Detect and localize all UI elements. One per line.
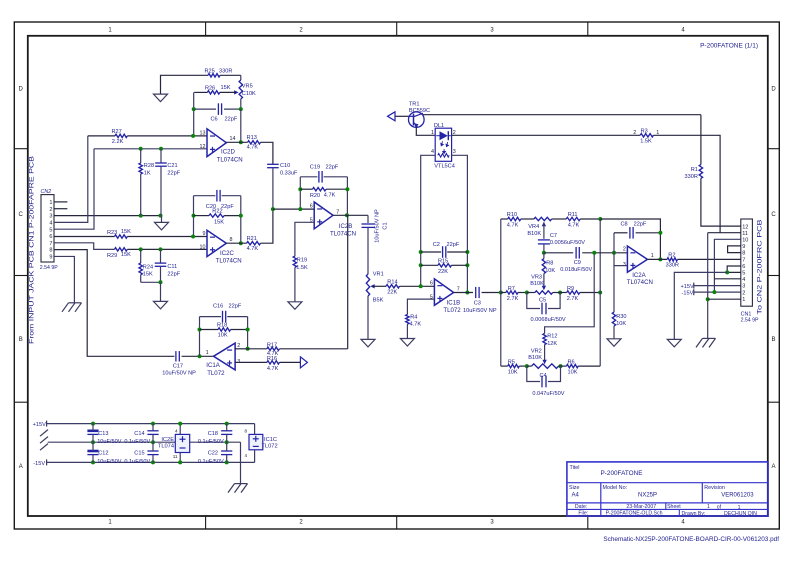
label R15	[438, 258, 448, 274]
wire IC1B output	[454, 292, 473, 294]
capacitor C20	[217, 190, 220, 202]
svg-text:TR1: TR1	[409, 101, 420, 107]
svg-text:C7: C7	[550, 233, 557, 239]
label R18	[217, 322, 228, 338]
label C21	[167, 163, 180, 176]
label R6	[568, 360, 578, 376]
resistor R20	[313, 188, 327, 191]
svg-text:VTL5C4: VTL5C4	[434, 164, 455, 170]
svg-text:R27: R27	[112, 129, 122, 135]
wire nodeX to C9	[544, 252, 573, 254]
svg-text:10K: 10K	[568, 369, 578, 375]
label IC2B	[330, 223, 356, 238]
node C6 right	[239, 107, 243, 111]
wire feedback rail right IC2D	[240, 109, 242, 142]
svg-text:9: 9	[49, 255, 52, 261]
svg-text:15K: 15K	[221, 85, 231, 91]
svg-text:10K: 10K	[508, 369, 518, 375]
wire R27 line	[88, 135, 115, 137]
svg-text:14: 14	[230, 136, 236, 142]
resistor R11	[566, 217, 580, 220]
opto DL1 arrows	[440, 141, 449, 154]
svg-text:4.7K: 4.7K	[507, 222, 519, 228]
node pin3 C21 junction	[159, 214, 163, 218]
capacitor C14	[147, 424, 158, 443]
label C5	[531, 297, 566, 323]
svg-text:4: 4	[49, 220, 52, 226]
wire IC2A output	[647, 258, 667, 260]
wire IC1C power pins	[254, 424, 256, 463]
svg-text:B10K: B10K	[528, 355, 542, 361]
wire C19 line	[300, 176, 347, 178]
wire C1 to VR1	[367, 228, 369, 274]
label C7	[550, 233, 585, 246]
svg-text:R11: R11	[568, 212, 578, 218]
svg-text:R22: R22	[212, 208, 222, 214]
left board name text	[29, 156, 36, 344]
resistor R1	[699, 165, 702, 179]
label IC2B pins	[310, 204, 340, 224]
svg-text:B10K: B10K	[527, 231, 541, 237]
svg-text:2: 2	[237, 343, 240, 349]
svg-text:330R: 330R	[685, 174, 698, 180]
svg-text:CN1: CN1	[741, 311, 752, 317]
svg-text:C8: C8	[621, 221, 628, 227]
svg-text:10K: 10K	[545, 268, 555, 274]
svg-text:Drawn By:: Drawn By:	[682, 511, 706, 517]
svg-text:VR5: VR5	[242, 84, 253, 90]
svg-text:Revision: Revision	[704, 485, 725, 491]
svg-text:C12: C12	[98, 451, 108, 457]
node R12 riser top	[592, 251, 596, 255]
node R11 right	[598, 217, 602, 221]
label R8	[545, 260, 555, 274]
wire R25 net left	[161, 75, 209, 94]
svg-text:330R: 330R	[219, 69, 232, 75]
wire IC1A pin2	[235, 348, 248, 350]
svg-text:TL072: TL072	[443, 307, 461, 314]
wire TR1 collector to R1 net	[423, 114, 701, 116]
wire R30 to ground	[613, 326, 615, 339]
svg-text:1: 1	[742, 297, 745, 303]
svg-text:12: 12	[200, 144, 206, 150]
svg-text:0.0068uF/50V: 0.0068uF/50V	[531, 317, 566, 323]
label R17	[267, 342, 279, 356]
op-amp IC2A	[627, 246, 647, 272]
svg-text:10uF/50V NP: 10uF/50V NP	[463, 308, 497, 314]
resistor R5	[508, 364, 520, 367]
svg-text:D: D	[771, 87, 776, 93]
svg-text:TL074CN: TL074CN	[216, 257, 242, 264]
svg-text:C16: C16	[213, 303, 223, 309]
wire TR1 emitter to DL1	[416, 127, 435, 136]
svg-text:D: D	[19, 87, 24, 93]
svg-text:R24: R24	[143, 264, 153, 270]
svg-text:10uF/50V: 10uF/50V	[97, 439, 122, 445]
label R25	[205, 69, 233, 75]
node IC2E bottom	[178, 460, 182, 464]
label IC1B pins	[430, 281, 460, 301]
wire R3 to CN1 pin11	[653, 135, 740, 232]
wire DL1 pin4 rail	[421, 155, 436, 286]
resistor R9	[567, 291, 580, 294]
label C22	[198, 451, 224, 465]
wire CN1 pin1 stub	[708, 298, 741, 300]
label IC2A	[627, 272, 653, 286]
resistor R25	[208, 74, 220, 77]
svg-text:11: 11	[173, 454, 178, 459]
svg-text:VER061203: VER061203	[721, 492, 754, 498]
wire R18 leads	[200, 329, 248, 331]
node IC1A pin1	[198, 354, 202, 358]
svg-text:B10K: B10K	[530, 281, 544, 287]
svg-text:B: B	[771, 337, 775, 343]
opto DL1 LED	[436, 131, 451, 140]
svg-text:Size: Size	[569, 485, 580, 491]
wire R9 to fb rail	[580, 292, 600, 294]
node R18 right	[246, 328, 250, 332]
svg-text:0.0056uF/50V: 0.0056uF/50V	[550, 240, 585, 246]
node C18 top	[225, 422, 229, 426]
resistor R29	[115, 248, 128, 251]
svg-text:3: 3	[453, 149, 456, 155]
svg-text:P-200FATONE: P-200FATONE	[601, 470, 643, 477]
svg-text:To CN2 P-200FRC PCB: To CN2 P-200FRC PCB	[757, 220, 764, 315]
label R23	[107, 229, 131, 236]
svg-text:0.33uF: 0.33uF	[280, 171, 298, 177]
node R28 top	[139, 147, 143, 151]
svg-text:R30: R30	[616, 314, 626, 320]
svg-text:File:: File:	[578, 511, 588, 517]
op-amp IC2B	[314, 202, 333, 229]
node R24C11 bottom	[159, 280, 163, 284]
svg-text:4: 4	[244, 453, 247, 458]
wire C10 to node	[272, 168, 274, 209]
svg-text:9: 9	[742, 244, 745, 250]
wire ground rail vertical	[707, 233, 709, 339]
node mix	[271, 207, 275, 211]
svg-text:23-Mar-2007: 23-Mar-2007	[626, 504, 656, 510]
svg-text:VR1: VR1	[373, 271, 384, 277]
svg-text:IC2C: IC2C	[220, 250, 234, 257]
svg-text:11: 11	[742, 231, 748, 237]
svg-text:6: 6	[49, 234, 52, 240]
capacitor C6	[218, 103, 221, 115]
svg-text:BC559C: BC559C	[409, 108, 430, 114]
label C15	[124, 451, 150, 465]
svg-text:B5K: B5K	[373, 297, 384, 303]
svg-text:5: 5	[49, 227, 52, 233]
label IC2D pins	[200, 130, 236, 150]
svg-text:R7: R7	[508, 286, 515, 292]
potentiometer VR3	[535, 286, 553, 295]
svg-text:22pF: 22pF	[167, 271, 180, 277]
svg-text:R13: R13	[247, 135, 257, 141]
wire CN1 pin9-8 bracket	[728, 246, 741, 253]
ground below C11	[154, 301, 168, 309]
node IC1A pin2	[246, 347, 250, 351]
node CN1 pin1	[706, 297, 710, 301]
wire R26 left lead	[194, 91, 207, 93]
svg-text:C18: C18	[208, 431, 218, 437]
resistor R4	[406, 315, 409, 325]
svg-text:2.7K: 2.7K	[507, 296, 519, 302]
resistor R13	[248, 141, 261, 144]
svg-text:3: 3	[742, 284, 745, 290]
node C12 bottom	[91, 460, 95, 464]
capacitor C19	[319, 171, 322, 183]
hatched ground CN2 pin9	[62, 303, 82, 312]
opto DL1 LDR	[438, 154, 449, 158]
connector CN1 pin numbers	[742, 224, 748, 303]
label R2	[666, 253, 679, 269]
label IC2C	[216, 250, 242, 265]
svg-text:2.54 9P: 2.54 9P	[741, 318, 759, 324]
label R9	[567, 286, 579, 302]
svg-text:R18: R18	[217, 322, 227, 328]
svg-text:6: 6	[742, 264, 745, 270]
label VR2	[528, 348, 542, 361]
wire R11 leads	[552, 218, 601, 220]
resistor R8	[542, 259, 545, 274]
svg-text:C10: C10	[280, 163, 290, 169]
svg-text:2.2K: 2.2K	[112, 139, 124, 145]
resistor R18	[218, 328, 231, 331]
svg-text:C: C	[771, 212, 776, 218]
svg-text:C14: C14	[134, 431, 144, 437]
wire IC2D output	[226, 141, 247, 143]
svg-text:R2: R2	[668, 253, 675, 259]
wire R21 to node	[261, 209, 273, 243]
wire R23 to IC2C pin9	[127, 236, 207, 238]
svg-text:4.7K: 4.7K	[267, 366, 279, 372]
svg-text:A: A	[771, 464, 775, 470]
resistor R17	[267, 347, 280, 350]
svg-text:2: 2	[49, 207, 52, 213]
svg-text:10: 10	[742, 238, 748, 244]
label C17	[162, 363, 196, 376]
svg-text:B: B	[19, 337, 23, 343]
label C19	[310, 165, 339, 171]
resistor R10	[508, 217, 521, 220]
op-amp IC1A	[214, 343, 236, 370]
wire R1 top	[700, 115, 702, 165]
svg-text:2.7K: 2.7K	[567, 296, 579, 302]
svg-text:VR2: VR2	[531, 348, 542, 354]
node C22 bottom	[225, 460, 229, 464]
svg-text:7: 7	[457, 286, 460, 292]
capacitor C2	[443, 246, 446, 258]
svg-text:A4: A4	[572, 493, 580, 499]
wire R10 leads	[501, 218, 534, 220]
resistor R6	[566, 364, 578, 367]
resistor R23	[115, 235, 128, 238]
svg-text:1: 1	[431, 130, 434, 136]
title block frame	[567, 462, 768, 516]
opto DL1 box	[435, 128, 451, 161]
label R30	[616, 314, 626, 327]
op-amp power IC2E box	[175, 434, 189, 452]
label R16	[267, 356, 279, 372]
label TR1	[409, 101, 430, 114]
svg-text:P-200FATONE (1/1): P-200FATONE (1/1)	[700, 43, 758, 50]
svg-text:C6: C6	[211, 117, 218, 123]
op-amp IC2C	[207, 230, 226, 256]
svg-text:R4: R4	[410, 315, 417, 321]
label VR4	[527, 224, 541, 237]
svg-text:4.7K: 4.7K	[568, 222, 580, 228]
node C2 right	[465, 250, 469, 254]
svg-text:R14: R14	[387, 279, 397, 285]
label IC1B	[443, 300, 461, 314]
wire C20 line	[194, 195, 241, 197]
svg-text:R19: R19	[297, 258, 307, 264]
off-page arrow right	[300, 357, 307, 368]
svg-text:10: 10	[200, 245, 206, 251]
wire CN2 pin5 riser	[54, 149, 94, 229]
svg-text:C5: C5	[539, 297, 546, 303]
svg-text:+15V: +15V	[681, 284, 694, 290]
svg-text:22pF: 22pF	[634, 221, 647, 227]
wire C20 rail right	[240, 196, 242, 244]
node IC1B output	[465, 291, 469, 295]
capacitor C16	[223, 311, 226, 323]
label R21	[247, 236, 259, 252]
svg-text:22pF: 22pF	[447, 242, 460, 248]
ground under C21	[155, 222, 169, 230]
svg-text:7: 7	[49, 241, 52, 247]
hatched ground CN1	[696, 338, 716, 347]
label C6	[211, 117, 238, 123]
label C18	[198, 431, 224, 445]
resistor R15	[438, 264, 452, 267]
wire pin2 stub segment	[613, 253, 615, 266]
capacitor C5 bracket	[527, 293, 560, 315]
hatched ground power right	[228, 484, 248, 493]
wire VR5 top lead	[240, 75, 242, 80]
node IC2E top	[178, 422, 182, 426]
svg-text:R5: R5	[508, 360, 515, 366]
svg-text:P-200FATONE-OLD.Sch: P-200FATONE-OLD.Sch	[606, 511, 663, 517]
label R13	[247, 135, 259, 150]
resistor R7	[506, 291, 518, 294]
svg-text:C11: C11	[167, 264, 177, 270]
label VR1	[373, 271, 384, 303]
wire C16 line	[200, 316, 248, 318]
label R11	[568, 212, 580, 228]
label IC1A pins	[206, 343, 241, 365]
svg-text:1.5K: 1.5K	[296, 265, 308, 271]
label IC2E pin numbers	[173, 429, 178, 459]
wire fb rail vertical	[599, 219, 601, 366]
svg-text:IC2B: IC2B	[339, 223, 353, 230]
svg-text:CN2: CN2	[41, 189, 52, 195]
svg-text:12K: 12K	[547, 341, 557, 347]
svg-text:Date:: Date:	[575, 504, 587, 510]
wire IC2C output	[226, 242, 246, 244]
svg-text:15K: 15K	[121, 252, 131, 258]
svg-text:Sheet: Sheet	[667, 504, 681, 510]
label -15V right	[682, 289, 694, 296]
capacitor C11	[155, 249, 167, 282]
svg-text:8: 8	[244, 429, 247, 434]
node tone in	[499, 291, 503, 295]
resistor R22	[209, 214, 224, 217]
resistor R21	[247, 242, 261, 245]
wire CN2 pin3 to ground net	[54, 215, 162, 217]
capacitor C4 bracket	[527, 366, 561, 387]
svg-text:TL074CN: TL074CN	[627, 279, 653, 286]
svg-text:10K: 10K	[218, 332, 228, 338]
title block text	[569, 465, 757, 517]
svg-text:4.7K: 4.7K	[324, 192, 336, 198]
label DL1	[434, 123, 455, 169]
svg-text:2: 2	[742, 290, 745, 296]
node IC2C output	[239, 241, 243, 245]
svg-text:+15V: +15V	[33, 422, 46, 428]
label IC1C pin numbers	[244, 429, 247, 458]
svg-text:22pF: 22pF	[326, 165, 339, 171]
node R22 right	[239, 214, 243, 218]
wire CN1 pin4 stub	[714, 278, 740, 280]
wire R17 leads	[248, 348, 348, 350]
resistor R12	[543, 333, 546, 344]
label R22	[212, 208, 224, 225]
node C8 left bottom	[612, 251, 616, 255]
svg-text:R26: R26	[205, 86, 215, 92]
node IC2D pin13	[191, 134, 195, 138]
svg-text:From INPUT JACK PCB CN1 P-200F: From INPUT JACK PCB CN1 P-200FAPRE PCB	[29, 156, 36, 344]
node C15 bottom	[151, 460, 155, 464]
ground below CN1	[667, 339, 681, 347]
node C14 bottom	[151, 440, 155, 444]
wire C7 to nodeX	[543, 244, 545, 253]
node C14 top	[151, 422, 155, 426]
svg-text:10uF/50V: 10uF/50V	[97, 459, 122, 465]
svg-text:-15V: -15V	[682, 291, 694, 297]
label R20	[310, 192, 336, 199]
svg-text:330R: 330R	[666, 262, 679, 268]
svg-text:7: 7	[742, 257, 745, 263]
node R22 left	[192, 214, 196, 218]
wire DL1 pin2 to R3	[452, 134, 641, 136]
wire R15 leads	[421, 264, 468, 266]
resistor R19	[293, 256, 296, 267]
svg-text:4: 4	[175, 429, 178, 434]
label C14	[124, 431, 150, 445]
wire VR4 wiper to C7	[543, 223, 545, 239]
wire CN2 pin9 down	[54, 256, 74, 302]
svg-text:C2: C2	[433, 242, 440, 248]
svg-text:C19: C19	[310, 165, 320, 171]
svg-text:22pF: 22pF	[225, 117, 238, 123]
potentiometer VR5	[234, 80, 242, 99]
connector CN1 box	[741, 219, 753, 306]
node R15 left	[419, 263, 423, 267]
svg-text:4.7K: 4.7K	[247, 246, 259, 252]
node C21 top	[159, 147, 163, 151]
label R29	[107, 252, 131, 259]
capacitor C13	[87, 424, 98, 443]
svg-text:4.7K: 4.7K	[410, 321, 422, 327]
svg-text:0.1uF/50V: 0.1uF/50V	[198, 439, 224, 445]
svg-text:15K: 15K	[214, 220, 224, 226]
svg-text:IC2D: IC2D	[221, 149, 235, 156]
svg-text:TL072: TL072	[207, 370, 225, 377]
wire R5 leads	[501, 365, 527, 367]
wire IC2B pin5	[295, 222, 314, 256]
wire -15V to pin2	[694, 291, 741, 293]
